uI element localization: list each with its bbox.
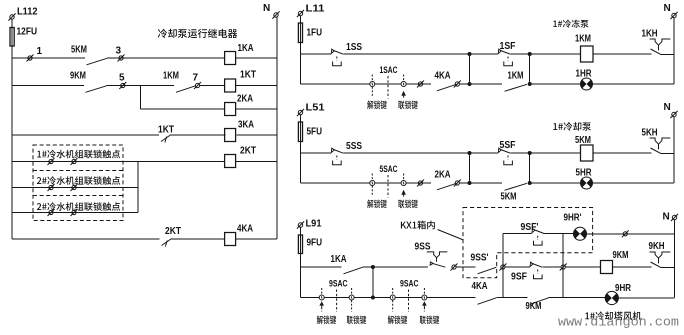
junction A branch (468, 181, 472, 185)
node 7 (194, 82, 201, 89)
svg-text:L11: L11 (306, 4, 325, 15)
svg-text:L91: L91 (306, 219, 322, 230)
label 联锁键 9SAC g1 (347, 316, 367, 325)
wire bottom rung right segment (172, 238, 225, 240)
wire bottom rung to N bus (236, 238, 277, 240)
svg-text:9KM: 9KM (526, 301, 542, 312)
junction node main rung3 at vertical C (499, 264, 506, 271)
svg-text:9SF: 9SF (511, 272, 527, 283)
node before 2KA contact (417, 180, 424, 187)
label 解锁键 section 1 (367, 101, 387, 110)
wire main rung3 to 9SF (506, 266, 530, 268)
svg-text:1KM: 1KM (508, 71, 524, 82)
switch 1SF (498, 49, 510, 54)
fuse 12FU (10, 28, 14, 47)
dashed stem below 9SAC g2 node2 lower (423, 307, 425, 311)
wire vertical junction A (469, 54, 471, 84)
wire coil 9KM to overload 9KH (613, 266, 652, 268)
node 5 (119, 82, 126, 89)
selector 9SAC group2 node 2 (422, 295, 427, 300)
lamp 5HR (581, 177, 593, 189)
svg-text:5HR: 5HR (576, 168, 593, 179)
arrow below 5SAC node2 (401, 190, 406, 197)
label 解锁键 9SAC g2 (388, 316, 408, 325)
contact 9KM (86, 86, 107, 93)
wire rung2 to N bus (236, 85, 277, 87)
wire lamp 5HR to N bus (592, 182, 674, 184)
arrow below 1SAC node2 (401, 91, 406, 98)
coil 9KM (601, 261, 613, 274)
coil 2KT (225, 155, 236, 168)
wire vertical C (502, 233, 504, 297)
node interlock row2 a (48, 184, 55, 191)
wire rung4 left segment (12, 134, 159, 136)
wire rung4 to N bus (237, 134, 278, 136)
wire left bus L11 (300, 16, 302, 85)
wire main rung 5SS to junction A (344, 152, 470, 154)
wire main rung3 junction to 9SS (373, 266, 428, 268)
selector 5SAC node 1 (370, 181, 375, 186)
title 1#冷冻泵 (553, 20, 588, 28)
dashed shaft 5SAC (387, 175, 389, 198)
wire branch 2KA to junction A (460, 182, 470, 184)
dashed stem below 9SAC g1 node2 (351, 300, 353, 311)
wire vertical junction B (529, 153, 531, 183)
switch 1SS (331, 49, 343, 54)
label 解锁键 section 5 (367, 200, 387, 209)
switch 9SF' (532, 228, 544, 233)
coil 3KA (225, 129, 236, 142)
overload contact 1KH (650, 39, 671, 54)
contact 1KA (344, 267, 363, 274)
wire branch junction B to lamp 1HR (530, 83, 581, 85)
wire overload 9KH to N bus (661, 266, 675, 268)
switch 9SF (530, 262, 542, 267)
svg-text:5KM: 5KM (575, 135, 591, 146)
wire coil 1KM to overload 1KH (593, 53, 652, 55)
wire branch 4KA to junction A (460, 83, 470, 85)
node interlock row1 b (71, 158, 78, 165)
node L91 (297, 221, 304, 228)
title 1#冷却泵 (553, 122, 591, 131)
dashed stem above 9SAC g2 node1 (392, 288, 394, 295)
left panel title 冷却泵运行继电器 (158, 29, 238, 38)
junction B main rung (528, 52, 532, 56)
svg-text:9KM: 9KM (70, 71, 86, 82)
svg-text:1KT: 1KT (240, 70, 256, 81)
wire main rung3 to coil 9KM (566, 266, 601, 268)
dashed stem below 9SAC g2 node1 (392, 300, 394, 311)
svg-text:1KH: 1KH (642, 29, 658, 40)
lamp 1HR (581, 78, 593, 90)
svg-text:9SF': 9SF' (521, 222, 539, 233)
dashed box interlock outer (33, 145, 123, 221)
svg-text:9SS': 9SS' (471, 253, 489, 264)
svg-text:4KA: 4KA (237, 224, 253, 235)
svg-text:1HR: 1HR (576, 69, 593, 80)
coil 4KA (225, 233, 236, 246)
svg-text:5SAC: 5SAC (380, 164, 398, 175)
wire rung1 to N bus (236, 57, 278, 59)
node N left panel (272, 11, 279, 18)
label 联锁键 section 5 (398, 200, 418, 209)
wire main rung 1SF to junction B (511, 53, 530, 55)
wire rung3 segment (141, 108, 225, 110)
wire left bus L51 (300, 115, 302, 184)
svg-text:L51: L51 (306, 103, 325, 114)
wire main rung from bus to 5SS (301, 152, 332, 154)
svg-text:5: 5 (119, 73, 125, 84)
wire left bus L91 (300, 227, 302, 298)
contact 5KM (87, 58, 108, 65)
svg-text:1KA: 1KA (331, 254, 347, 265)
svg-text:9SS: 9SS (415, 242, 431, 253)
wire rung1 mid segment (107, 57, 225, 59)
wire bottom rung left segment (12, 238, 160, 240)
node L112 (8, 13, 15, 20)
selector 9SAC group1 node 1 (319, 295, 324, 300)
dashed shaft 1SAC (387, 76, 389, 99)
svg-text:9KH: 9KH (649, 241, 665, 252)
wire interlock junction vertical (137, 162, 139, 213)
coil 2KA (225, 103, 236, 116)
dashed stem below 1SAC node1 (371, 87, 373, 97)
svg-text:L112: L112 (17, 7, 38, 18)
overload contact 9KH (650, 252, 671, 267)
node L11 (297, 10, 304, 17)
svg-text:5SF: 5SF (500, 140, 516, 151)
title 1#冷却塔风机 (585, 311, 641, 320)
svg-text:N: N (263, 3, 270, 14)
arrow below 9SAC g1 node1 (319, 301, 324, 307)
dashed stem above 9SAC g2 node2 (423, 288, 425, 295)
node 3 (118, 55, 125, 62)
svg-text:www.diangon.com: www.diangon.com (558, 315, 679, 330)
wire main rung junction A to 5SF (470, 152, 499, 154)
label 2#冷水机组联锁触点 row3 (37, 202, 120, 211)
actuator of 9SF' (534, 236, 543, 245)
actuator of 5SS (333, 156, 342, 165)
wire right bus left panel (276, 17, 278, 239)
svg-text:12FU: 12FU (17, 27, 38, 38)
svg-text:5KM: 5KM (71, 45, 87, 56)
wire interlock row2 (12, 187, 138, 189)
switch 5SS (331, 148, 343, 153)
label KX1箱内 (401, 221, 435, 230)
selector 5SAC node 2 (401, 181, 406, 186)
wire main rung3 1KA to junction (363, 266, 373, 268)
wire rung2 right segment (200, 85, 226, 87)
contact 1KM self-hold (505, 84, 528, 91)
wire vertical D (562, 233, 564, 297)
svg-text:N: N (663, 212, 670, 223)
wire lower branch 9KM to lamp 9HR (549, 297, 606, 299)
svg-text:1KM: 1KM (575, 34, 591, 45)
dashed stem above 1SAC node1 (371, 75, 373, 82)
contact 1KM (176, 86, 196, 93)
svg-text:9FU: 9FU (307, 238, 323, 249)
svg-text:9KM: 9KM (613, 250, 629, 261)
wire lower branch from bus through 9SAC (301, 297, 476, 299)
wire right bus section 9 (674, 220, 676, 298)
wire vertical junction A (469, 153, 471, 183)
wire left bus L112 (11, 19, 13, 239)
wire main rung 1SS to junction A (344, 53, 470, 55)
wire coil 5KM to overload 5KH (593, 152, 652, 154)
switch 5SF (498, 148, 510, 153)
wire main rung3 into KX1 box (457, 266, 476, 268)
contact 9SS knob-operated NC (427, 252, 448, 267)
contact 4KA (437, 84, 457, 91)
node after 9SS (451, 264, 458, 271)
lamp 9HR (605, 291, 618, 304)
node after 4KA contact (454, 81, 461, 88)
dashed shaft 9SAC g2 (408, 290, 410, 313)
wire main rung from bus to 1SS (301, 53, 332, 55)
label 联锁键 section 1 (398, 101, 418, 110)
svg-text:2KT: 2KT (165, 226, 181, 237)
svg-text:1: 1 (37, 46, 43, 57)
wire upper branch 9SF' to lamp 9HR' (544, 232, 574, 234)
svg-text:3: 3 (116, 46, 122, 57)
svg-text:1KM: 1KM (163, 71, 179, 82)
wire main rung 5SF to junction B (511, 152, 530, 154)
arrow below 9SAC g2 node2 (422, 301, 427, 307)
wire lower branch 4KA to vertical C (496, 297, 527, 299)
wire rung1 left segment (12, 57, 85, 59)
overload contact 5KH (650, 138, 671, 153)
label 1#冷水机组联锁触点 (37, 150, 120, 159)
svg-text:N: N (664, 3, 671, 14)
svg-text:3KA: 3KA (238, 120, 254, 131)
contact 5KM self-hold (505, 183, 528, 190)
wire overload 1KH to N bus (661, 53, 675, 55)
coil 1KM (581, 46, 594, 62)
junction B branch (528, 181, 532, 185)
dashed stem below 5SAC node1 (371, 186, 373, 196)
svg-text:9HR: 9HR (615, 283, 632, 294)
dashed divider interlock 2-3 (33, 195, 123, 197)
dashed divider interlock 1-2 (33, 170, 123, 172)
wire interlock row1 / 2KT rung (12, 161, 225, 163)
contact 1KT timed NC (161, 135, 171, 143)
contact 2KA (437, 183, 457, 190)
svg-text:1KA: 1KA (238, 43, 254, 54)
selector 9SAC group2 node 1 (390, 295, 395, 300)
svg-text:2KT: 2KT (240, 146, 256, 157)
selector 1SAC node 1 (370, 82, 375, 87)
node interlock row1 a (48, 158, 55, 165)
wire rung3 to N bus (236, 108, 277, 110)
wire branch junction A to 5KM contact (470, 182, 503, 184)
svg-text:4KA: 4KA (435, 71, 451, 82)
wire main rung junction A to 1SF (470, 53, 499, 55)
node interlock row2 b (71, 184, 78, 191)
junction A branch (468, 82, 472, 86)
junction A main rung (468, 151, 472, 155)
wire interlock row3 (12, 212, 138, 214)
junction B branch (528, 82, 532, 86)
dashed stem below 9SAC g1 node1 lower (321, 307, 323, 311)
wire rung2 mid segment (107, 85, 175, 87)
contact 2KT timed NC (162, 239, 172, 247)
node upper branch (622, 230, 629, 237)
svg-text:2KA: 2KA (435, 170, 451, 181)
svg-text:9SAC: 9SAC (329, 279, 348, 290)
svg-text:2KA: 2KA (237, 94, 253, 105)
dashed stem above 9SAC g1 node2 (351, 288, 353, 295)
svg-text:1SS: 1SS (346, 42, 362, 53)
wire branch junction A to 1KM contact (470, 83, 503, 85)
junction B main rung (528, 151, 532, 155)
node N section 1 (670, 12, 677, 19)
wire vertical junction B (529, 54, 531, 84)
selector 9SAC group1 node 2 (349, 295, 354, 300)
svg-text:N: N (664, 102, 671, 113)
wire 2KT rung to N bus (236, 161, 277, 163)
label 解锁键 9SAC g1 (317, 316, 337, 325)
dashed stem above 5SAC node1 (371, 174, 373, 181)
wire main rung3 9SF to vertical D (542, 266, 560, 268)
svg-text:1KT: 1KT (158, 125, 174, 136)
selector 1SAC node 2 (401, 82, 406, 87)
node interlock row3 a (48, 209, 55, 216)
wire branch from bus to 4KA contact (301, 83, 432, 85)
node N section 5 (670, 111, 677, 118)
actuator of 9SF (534, 270, 543, 279)
node before 4KA contact (417, 81, 424, 88)
coil 1KT (225, 79, 236, 92)
wire vertical main rung3 to lower branch (372, 267, 374, 298)
fuse 1FU (298, 23, 302, 43)
svg-text:5KH: 5KH (642, 128, 658, 139)
junction main rung3 left (371, 265, 375, 269)
wire rung4 right segment (171, 134, 226, 136)
lamp 9HR' (574, 227, 587, 240)
wire upper branch from vertical C to 9SF' (503, 232, 532, 234)
wire upper branch lamp 9HR' to N bus (587, 233, 675, 235)
wire junction rung2 to rung3 (140, 86, 142, 110)
node L51 (297, 109, 304, 116)
dashed stem above 9SAC g1 node1 (321, 288, 323, 295)
junction node main rung3 at vertical D (560, 264, 567, 271)
node 1 (27, 55, 34, 62)
svg-text:1SF: 1SF (500, 41, 516, 52)
svg-text:4KA: 4KA (472, 281, 488, 292)
svg-text:1SAC: 1SAC (380, 65, 398, 76)
label 联锁键 9SAC g2 (420, 316, 440, 325)
node interlock row3 b (71, 209, 78, 216)
wire main rung junction B to coil 5KM (530, 152, 581, 154)
dashed enclosure KX1 (463, 208, 593, 278)
dashed stem above 1SAC node2 (403, 75, 405, 82)
coil 5KM (581, 145, 594, 161)
wire lamp 1HR to N bus (592, 83, 674, 85)
wire right bus section 1 (673, 18, 675, 85)
dashed shaft 9SAC g1 (336, 290, 338, 313)
coil 1KA (225, 52, 236, 65)
fuse 5FU (298, 122, 302, 142)
svg-text:9HR': 9HR' (564, 213, 582, 224)
svg-text:5FU: 5FU (307, 127, 323, 138)
wire rung2 left segment (12, 85, 84, 87)
wire overload 5KH to N bus (661, 152, 675, 154)
svg-text:5SS: 5SS (346, 141, 362, 152)
wire main rung3 from bus to 1KA (301, 266, 342, 268)
actuator of 1SS (333, 57, 342, 66)
wire main rung junction B to coil 1KM (530, 53, 581, 55)
contact 9KM self-hold (530, 298, 549, 305)
wire branch junction B to lamp 5HR (530, 182, 581, 184)
wire right bus section 5 (673, 117, 675, 184)
junction lower branch left (371, 296, 375, 300)
fuse 9FU (298, 235, 302, 254)
actuator of 1SF (504, 57, 513, 66)
wire lower branch lamp 9HR to N bus (618, 297, 674, 299)
contact 4KA section3 (478, 298, 497, 305)
wire branch from bus to 2KA contact (301, 182, 432, 184)
dashed stem above 5SAC node2 (403, 174, 405, 181)
node after 2KA contact (454, 180, 461, 187)
svg-text:7: 7 (193, 73, 199, 84)
actuator of 5SF (504, 156, 513, 165)
svg-text:9SAC: 9SAC (400, 279, 419, 290)
svg-text:1FU: 1FU (307, 28, 323, 39)
junction A main rung (468, 52, 472, 56)
pointer line KX1 label to box (438, 230, 464, 241)
label 2#冷水机组联锁触点 row2 (37, 176, 120, 185)
svg-text:5KM: 5KM (501, 192, 517, 203)
node N section 9 (671, 214, 678, 221)
contact 9SS' (478, 267, 497, 274)
